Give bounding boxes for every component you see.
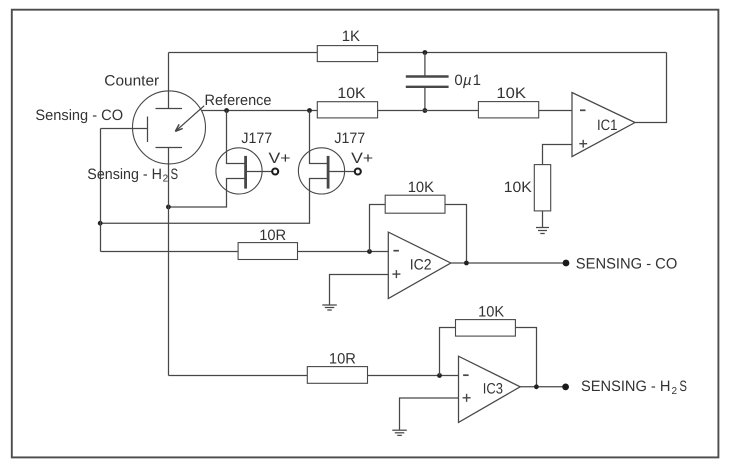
IC3 minus sign <box>463 374 469 376</box>
svg-text:10R: 10R <box>329 350 356 367</box>
svg-text:IC3: IC3 <box>483 381 503 398</box>
svg-text:IC2: IC2 <box>410 257 432 274</box>
node reference J2 drain <box>307 108 312 113</box>
wire CO line vertical <box>100 129 102 252</box>
wire IC3 feedback right <box>515 328 536 387</box>
resistor R2 10K <box>317 102 377 118</box>
wire Q2 source <box>101 179 329 224</box>
wire R7 to IC3 <box>368 375 459 377</box>
wire IC2 output <box>451 262 566 264</box>
terminal SENSING-H2S <box>562 384 569 391</box>
node reference J1 drain <box>224 108 229 113</box>
svg-text:10K: 10K <box>408 179 434 196</box>
wire H2S line vertical <box>168 148 170 376</box>
transistor Q1 J177 body <box>216 148 262 194</box>
capacitor C1 0u1 <box>406 75 449 77</box>
node IC2 output junction <box>464 261 469 266</box>
svg-text:10K: 10K <box>337 85 365 102</box>
op-amp IC1 <box>572 93 635 157</box>
svg-text:J177: J177 <box>334 130 365 147</box>
svg-text:0: 0 <box>454 72 462 89</box>
wire cap top lead <box>424 53 426 77</box>
wire top feedback horizontal left <box>169 52 318 54</box>
wire top feedback horizontal right <box>378 52 667 54</box>
resistor R8 10K <box>456 320 516 337</box>
wire R4 to ground <box>542 211 544 227</box>
wire CO electrode left <box>101 128 148 130</box>
wire IC3 noninverting input <box>400 398 459 430</box>
svg-text:2: 2 <box>163 174 169 185</box>
svg-text:J177: J177 <box>241 130 272 147</box>
IC2 minus sign <box>393 250 399 252</box>
svg-text:Sensing - CO: Sensing - CO <box>35 107 123 124</box>
node Q2 source to CO line <box>98 221 103 226</box>
sensor cell body <box>133 91 206 164</box>
op-amp IC3 <box>459 356 521 422</box>
sensor H2S electrode plate <box>156 147 183 149</box>
Q2 channel bar <box>327 156 330 189</box>
svg-text:10R: 10R <box>259 227 286 244</box>
transistor Q2 J177 body <box>298 148 344 194</box>
resistor R1 1K <box>317 46 377 62</box>
wire Q1 gate <box>247 171 272 173</box>
svg-text:V+: V+ <box>351 150 373 167</box>
svg-text:S: S <box>679 378 687 395</box>
svg-text:IC1: IC1 <box>597 117 618 134</box>
resistor R4 10K vertical <box>534 165 550 211</box>
IC3 plus sign <box>463 397 471 399</box>
IC1 plus sign <box>579 143 587 145</box>
svg-text:µ: µ <box>463 72 472 89</box>
node cap bottom junction <box>423 108 428 113</box>
resistor R3 10K <box>478 102 538 118</box>
sensor reference arrow <box>176 106 204 131</box>
wire Q2 gate <box>330 171 355 173</box>
wire R5 to IC2 <box>298 251 389 253</box>
wire to IC1 inverting input <box>539 110 572 112</box>
wire Q1 source <box>169 179 246 208</box>
svg-text:S: S <box>171 166 179 183</box>
wire top feedback right vertical <box>635 53 667 123</box>
sensor counter electrode plate <box>156 108 183 110</box>
op-amp IC2 <box>388 232 451 299</box>
node Q1 source to H2S line <box>166 205 171 210</box>
svg-text:1K: 1K <box>342 28 360 45</box>
svg-text:10K: 10K <box>478 303 504 320</box>
svg-text:Counter: Counter <box>104 73 159 90</box>
svg-text:SENSING - H: SENSING - H <box>581 378 670 395</box>
wire IC2 noninverting input <box>330 275 389 305</box>
wire IC2 feedback left <box>370 205 386 252</box>
svg-text:Sensing - H: Sensing - H <box>87 166 162 183</box>
wire Q1 drain <box>227 111 246 164</box>
terminal SENSING-CO <box>563 260 570 267</box>
wire Q2 drain <box>310 111 329 164</box>
svg-text:SENSING - CO: SENSING - CO <box>576 256 678 273</box>
svg-text:10K: 10K <box>504 179 532 196</box>
ground IC1 <box>536 227 549 229</box>
terminal Q2 V+ <box>355 169 361 175</box>
wire IC2 feedback right <box>445 205 467 264</box>
Q1 channel bar <box>244 156 247 189</box>
wire cap bottom lead <box>424 87 426 111</box>
resistor R5 10R <box>238 243 297 260</box>
wire IC3 output <box>520 386 565 388</box>
node top cap junction <box>423 50 428 55</box>
wire CO line to R5 <box>101 251 239 253</box>
svg-text:V+: V+ <box>269 150 291 167</box>
wire H2S line to R7 <box>169 375 308 377</box>
wire between 10K resistors <box>378 110 479 112</box>
wire counter electrode up <box>168 53 170 109</box>
wire IC1 noninverting input <box>543 145 573 165</box>
ground IC3 <box>392 429 407 431</box>
IC2 plus sign <box>392 273 400 275</box>
resistor R7 10R <box>307 367 367 384</box>
svg-text:1: 1 <box>473 72 481 89</box>
svg-text:10K: 10K <box>496 85 526 102</box>
wire IC3 feedback left <box>440 328 456 376</box>
svg-text:Reference: Reference <box>205 92 272 109</box>
node IC3 output junction <box>534 384 539 389</box>
node IC2 inverting input <box>367 249 372 254</box>
ground IC2 <box>322 304 337 306</box>
terminal Q1 V+ <box>272 169 278 175</box>
resistor R6 10K <box>385 195 445 213</box>
wire reference line <box>201 110 317 112</box>
node IC3 inverting input <box>437 373 442 378</box>
sensor CO electrode bar <box>147 117 149 143</box>
svg-text:2: 2 <box>672 386 678 397</box>
IC1 minus sign <box>580 109 586 111</box>
